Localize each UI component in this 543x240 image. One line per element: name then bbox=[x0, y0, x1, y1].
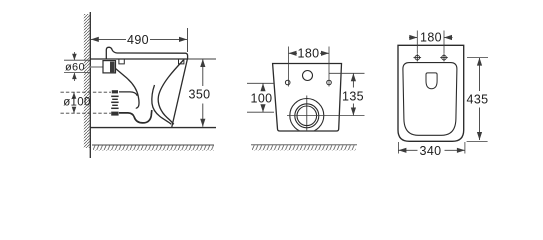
svg-text:340: 340 bbox=[420, 144, 442, 158]
svg-text:435: 435 bbox=[467, 93, 489, 107]
svg-text:180: 180 bbox=[420, 31, 442, 45]
svg-text:ø100: ø100 bbox=[63, 97, 91, 109]
svg-text:350: 350 bbox=[189, 87, 211, 101]
svg-text:135: 135 bbox=[342, 89, 364, 103]
svg-text:100: 100 bbox=[251, 92, 273, 106]
svg-text:180: 180 bbox=[298, 47, 320, 61]
svg-text:ø60: ø60 bbox=[65, 62, 85, 74]
svg-text:490: 490 bbox=[127, 33, 149, 47]
